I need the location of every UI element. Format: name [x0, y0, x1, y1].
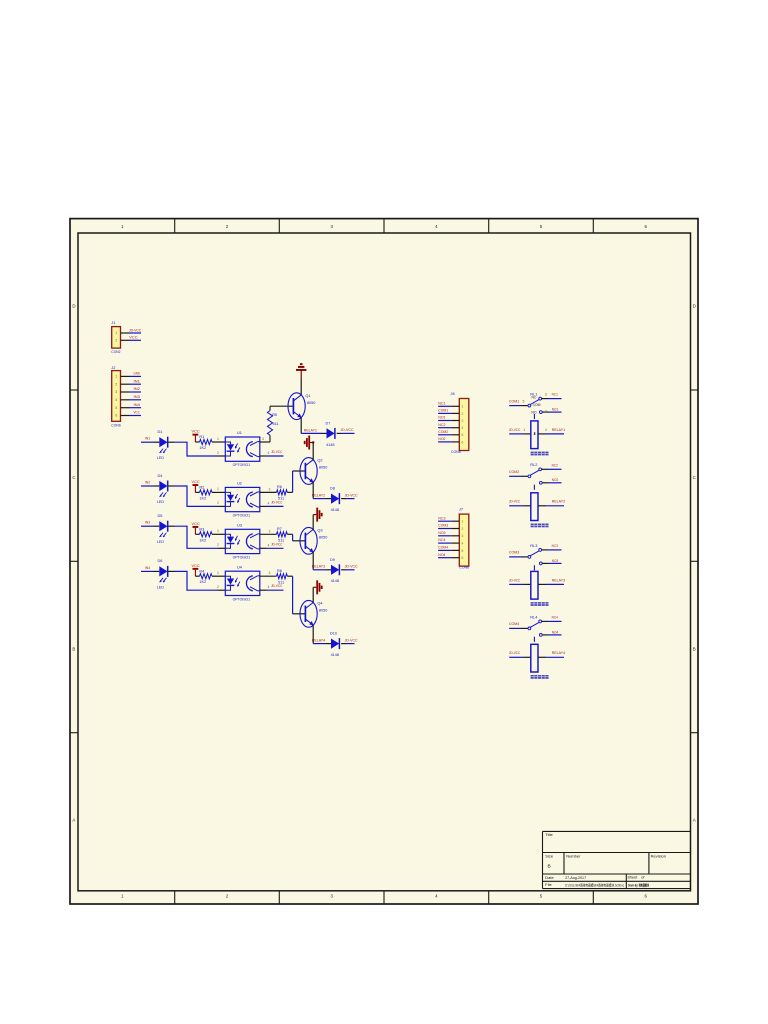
zone numbers bottom [121, 894, 647, 899]
svg-text:VCC: VCC [129, 334, 137, 339]
svg-text:IN4: IN4 [134, 402, 141, 407]
svg-text:4: 4 [461, 426, 463, 430]
resistor R1 1K2 [195, 435, 225, 450]
svg-text:5: 5 [115, 406, 117, 410]
svg-text:1K2: 1K2 [199, 538, 206, 542]
wire IN1 to LED [141, 441, 159, 443]
svg-text:CON2: CON2 [111, 349, 120, 354]
svg-text:3: 3 [115, 390, 117, 394]
svg-text:4: 4 [268, 451, 270, 455]
svg-text:IN2: IN2 [134, 386, 140, 391]
svg-text:1K2: 1K2 [199, 580, 206, 584]
svg-text:LED: LED [157, 539, 164, 544]
svg-text:JD-VCC: JD-VCC [509, 651, 521, 655]
svg-text:RELAY3: RELAY3 [312, 564, 325, 569]
svg-text:GND: GND [134, 371, 141, 376]
svg-text:3: 3 [461, 534, 463, 538]
wire Q1 collector [300, 379, 302, 395]
svg-text:R2: R2 [199, 486, 204, 490]
svg-text:COM: COM [533, 403, 541, 407]
svg-text:IN1: IN1 [134, 378, 140, 383]
wire RELAY2 row [313, 498, 354, 500]
svg-text:COM4: COM4 [509, 622, 519, 626]
svg-text:4148: 4148 [331, 653, 339, 657]
title block texts [545, 832, 666, 887]
svg-text:R5: R5 [272, 413, 277, 417]
wire U4 pin 3 to R8 [260, 575, 277, 577]
svg-text:D6: D6 [158, 558, 163, 563]
optocoupler U4 OPTOISO1 [225, 564, 259, 601]
svg-text:NC3: NC3 [438, 516, 445, 520]
svg-text:VCC: VCC [192, 429, 200, 434]
svg-text:COM4: COM4 [438, 546, 448, 550]
wire LED D1 to optocoupler pin 2 [168, 442, 225, 456]
resistor R6 511 [277, 485, 288, 501]
svg-text:A: A [72, 818, 75, 823]
svg-text:VCC: VCC [192, 521, 200, 526]
svg-text:1: 1 [461, 520, 463, 524]
svg-text:1K2: 1K2 [199, 446, 206, 450]
J7 pin wires [438, 521, 459, 558]
svg-text:COM2: COM2 [438, 430, 448, 434]
wire optocoupler U4 pin 4 to JD-VCC [260, 589, 284, 591]
relay RL3 caption [531, 602, 534, 606]
svg-text:RELAY2: RELAY2 [552, 500, 565, 504]
svg-text:VCC: VCC [192, 563, 200, 568]
wire Q2 emitter to RELAY2 [312, 482, 314, 498]
svg-text:8050: 8050 [307, 401, 315, 405]
svg-text:511: 511 [278, 497, 284, 501]
svg-text:6: 6 [461, 556, 463, 560]
svg-text:RELAY4: RELAY4 [312, 638, 326, 643]
svg-text:Size: Size [545, 853, 554, 858]
svg-text:511: 511 [278, 580, 284, 584]
transistor Q4 8050 [300, 600, 327, 627]
relay RL2 caption [531, 524, 534, 528]
svg-text:Q2: Q2 [317, 458, 322, 463]
wire IN4 to LED [141, 570, 159, 572]
svg-text:Title: Title [545, 832, 553, 837]
relay RL1 caption [531, 452, 534, 456]
svg-text:4148: 4148 [331, 508, 339, 512]
relay RL4 switch [509, 620, 561, 642]
svg-text:J6: J6 [451, 391, 455, 396]
J6 pin wires [438, 406, 459, 442]
svg-text:CON6: CON6 [459, 565, 469, 570]
svg-text:NO3: NO3 [552, 559, 558, 563]
J7 pin numbers [461, 520, 463, 561]
zone numbers top [121, 224, 647, 229]
connector J6 [459, 399, 469, 451]
resistor R2 1K2 [195, 486, 225, 501]
svg-text:J7: J7 [459, 506, 463, 511]
inner border frame [78, 233, 691, 891]
svg-text:JD-VCC: JD-VCC [271, 542, 283, 546]
optocoupler U2 pin numbers [217, 487, 271, 505]
wire LED D4 to optocoupler pin 2 [168, 486, 225, 506]
power ground right of Q3 collector [313, 514, 316, 516]
svg-text:3: 3 [269, 571, 271, 575]
svg-text:3: 3 [545, 393, 547, 397]
wire RELAY3 row [313, 569, 354, 571]
svg-text:D: D [693, 304, 696, 309]
svg-text:D8: D8 [330, 487, 335, 491]
svg-text:OPTOISO1: OPTOISO1 [233, 463, 251, 467]
wire IN2 to LED [141, 485, 159, 487]
wire optocoupler U1 pin 4 to JD-VCC [260, 455, 284, 457]
svg-text:5: 5 [461, 433, 463, 437]
svg-text:4148: 4148 [326, 443, 334, 447]
svg-text:2: 2 [217, 585, 219, 589]
svg-text:JD-VCC: JD-VCC [345, 493, 358, 497]
svg-text:VCC: VCC [134, 410, 141, 415]
svg-text:JD-VCC: JD-VCC [271, 584, 283, 588]
relay RL4 coil [509, 644, 564, 672]
svg-text:J1: J1 [111, 320, 115, 325]
resistor R3 1K2 [195, 527, 225, 542]
svg-text:1K2: 1K2 [199, 496, 206, 500]
svg-text:D:\2013.08\4路继电器模块\4路继电器模块.Sch: D:\2013.08\4路继电器模块\4路继电器模块.SchDoc [565, 882, 624, 887]
svg-text:R4: R4 [199, 569, 204, 573]
svg-text:27-Aug-2017: 27-Aug-2017 [565, 875, 587, 880]
svg-text:U3: U3 [237, 522, 242, 527]
svg-text:8050: 8050 [319, 608, 327, 612]
svg-text:COM1: COM1 [509, 399, 519, 403]
svg-text:NO1: NO1 [552, 408, 558, 412]
svg-text:OPTOISO1: OPTOISO1 [233, 556, 251, 560]
zone letters right [693, 304, 696, 823]
svg-text:LED: LED [157, 584, 164, 589]
svg-text:COM1: COM1 [438, 409, 448, 413]
svg-text:2: 2 [115, 382, 117, 386]
svg-text:IN3: IN3 [145, 520, 150, 525]
svg-text:2: 2 [217, 501, 219, 505]
schematic sheet background [70, 219, 698, 904]
svg-text:NO2: NO2 [552, 478, 558, 482]
svg-text:Date: Date [545, 875, 554, 880]
power ground right of Q4 collector [313, 586, 316, 588]
svg-text:3: 3 [262, 437, 264, 441]
svg-text:2: 2 [461, 412, 463, 416]
J6 net labels [438, 401, 448, 441]
svg-text:4: 4 [115, 398, 117, 402]
optocoupler U4 pin numbers [217, 571, 271, 589]
diode D10 4148 [330, 632, 339, 657]
wire IN3 to LED [141, 525, 159, 527]
svg-text:8050: 8050 [319, 466, 327, 470]
relay RL4 caption [531, 675, 534, 679]
svg-text:B: B [693, 646, 696, 651]
zone row ticks [70, 390, 698, 733]
svg-text:1: 1 [217, 571, 219, 575]
svg-text:5: 5 [461, 549, 463, 553]
wire R6 to Q2 base [287, 471, 305, 492]
svg-text:OPTOISO1: OPTOISO1 [233, 514, 251, 518]
optocoupler U3 OPTOISO1 [225, 522, 259, 559]
diode D7 4148 [326, 421, 335, 446]
svg-text:IN2: IN2 [145, 479, 150, 484]
connector J1 [112, 327, 121, 349]
resistor R5 511 [267, 406, 278, 442]
wire Q2 collector [312, 443, 314, 460]
junction at Q2 collector [312, 441, 314, 443]
optocoupler U1 pin numbers [217, 437, 270, 455]
svg-text:4: 4 [461, 542, 463, 546]
svg-text:Sheet: Sheet [627, 875, 638, 879]
svg-text:NC1: NC1 [552, 393, 558, 397]
J7 net labels [438, 516, 448, 557]
svg-text:RELAY1: RELAY1 [552, 428, 565, 432]
wire U1 pin 3 to R5 [260, 441, 270, 443]
svg-text:R8: R8 [277, 569, 282, 573]
svg-text:NC: NC [532, 395, 537, 399]
svg-text:4: 4 [545, 428, 547, 432]
svg-text:4: 4 [268, 585, 270, 589]
svg-text:D10: D10 [330, 632, 337, 636]
wire Q4 emitter to RELAY4 [312, 625, 314, 644]
svg-text:R3: R3 [199, 527, 204, 531]
LED indicator diode D4 [157, 473, 168, 504]
wire R5 to Q1 base [270, 405, 293, 407]
relay RL3 switch [509, 549, 561, 571]
wire RELAY4 row [313, 643, 354, 645]
diode D8 4148 [330, 487, 339, 512]
diode D9 4148 [330, 558, 339, 583]
svg-text:JD-VCC: JD-VCC [509, 500, 521, 504]
svg-text:LED: LED [157, 455, 164, 460]
title block [543, 831, 691, 888]
wire U2 pin 3 to R6 [260, 491, 277, 493]
svg-text:JD-VCC: JD-VCC [509, 428, 521, 432]
svg-text:2: 2 [545, 410, 547, 414]
svg-text:D5: D5 [158, 513, 163, 518]
connector J2 [112, 371, 121, 422]
svg-text:U1: U1 [237, 430, 242, 435]
resistor R4 1K2 [195, 569, 225, 584]
svg-text:COM2: COM2 [509, 470, 519, 474]
J1 pin numbers [115, 331, 117, 342]
svg-text:3: 3 [269, 529, 271, 533]
J6 pin numbers [461, 405, 463, 445]
svg-text:NO3: NO3 [438, 531, 445, 535]
power ground above Q1 [300, 371, 302, 379]
svg-text:RL2: RL2 [530, 462, 537, 467]
svg-text:2: 2 [115, 338, 117, 342]
wire LED D6 to optocoupler pin 2 [168, 571, 225, 590]
svg-text:NC3: NC3 [552, 544, 558, 548]
svg-text:VCC: VCC [192, 479, 200, 484]
svg-text:Q4: Q4 [317, 601, 323, 606]
svg-text:IN1: IN1 [145, 436, 150, 441]
resistor R8 511 [277, 569, 288, 585]
svg-text:2: 2 [217, 543, 219, 547]
svg-text:NC4: NC4 [438, 538, 445, 542]
svg-text:J2: J2 [111, 365, 115, 370]
wire Q3 emitter to RELAY3 [312, 552, 314, 570]
svg-text:D9: D9 [330, 558, 335, 562]
zone letters left [72, 304, 75, 823]
svg-text:4: 4 [268, 543, 270, 547]
svg-text:RELAY4: RELAY4 [552, 651, 565, 655]
svg-text:U2: U2 [237, 481, 242, 486]
optocoupler U1 OPTOISO1 [225, 430, 259, 467]
power VCC channel 2 [193, 484, 199, 486]
svg-text:LED: LED [157, 499, 164, 504]
svg-text:Revision: Revision [651, 853, 666, 858]
svg-text:D: D [72, 304, 75, 309]
svg-text:JD-VCC: JD-VCC [509, 578, 521, 582]
svg-text:Number: Number [566, 853, 581, 858]
svg-text:5: 5 [523, 399, 525, 403]
wire R8 to Q4 base [287, 576, 305, 614]
svg-text:511: 511 [278, 539, 284, 543]
connector J7 [459, 514, 469, 566]
svg-text:IN3: IN3 [134, 394, 140, 399]
svg-text:JD-VCC: JD-VCC [341, 428, 354, 432]
svg-text:1: 1 [115, 331, 117, 335]
svg-text:IN4: IN4 [145, 565, 151, 570]
svg-text:NO: NO [531, 410, 536, 414]
wire U3 pin 3 to R7 [260, 533, 277, 535]
svg-text:File: File [545, 882, 552, 887]
svg-text:RELAY1: RELAY1 [304, 427, 317, 432]
power VCC channel 1 [193, 434, 199, 436]
svg-text:NC2: NC2 [552, 463, 558, 467]
wire LED D5 to optocoupler pin 2 [168, 526, 225, 548]
svg-text:D7: D7 [326, 421, 331, 425]
svg-text:COM3: COM3 [438, 524, 448, 528]
svg-text:R6: R6 [277, 485, 282, 489]
wire optocoupler U3 pin 4 to JD-VCC [260, 547, 284, 549]
svg-text:NO1: NO1 [438, 416, 445, 420]
svg-text:JD-VCC: JD-VCC [271, 500, 283, 504]
svg-text:3: 3 [461, 419, 463, 423]
svg-text:CON6: CON6 [111, 422, 120, 427]
svg-text:RL4: RL4 [530, 614, 538, 619]
svg-text:OPTOISO1: OPTOISO1 [233, 597, 251, 601]
svg-text:B: B [72, 646, 75, 651]
optocoupler U2 OPTOISO1 [225, 481, 259, 518]
wire R7 to Q3 base [287, 534, 305, 541]
svg-text:D1: D1 [158, 429, 163, 434]
wire RELAY1 row [301, 432, 354, 434]
svg-text:4: 4 [268, 501, 270, 505]
svg-text:RELAY2: RELAY2 [312, 493, 325, 498]
svg-text:1: 1 [217, 529, 219, 533]
power VCC channel 4 [193, 568, 199, 570]
svg-text:Q3: Q3 [317, 528, 322, 533]
power VCC channel 3 [193, 526, 199, 528]
svg-text:1: 1 [461, 405, 463, 409]
J2 pin wires [121, 376, 142, 415]
svg-text:4148: 4148 [331, 579, 339, 583]
J1 pin 2 wire [121, 339, 142, 341]
svg-text:C: C [693, 475, 696, 480]
svg-text:511: 511 [273, 422, 279, 426]
svg-text:JD-VCC: JD-VCC [129, 327, 141, 332]
svg-text:6: 6 [461, 440, 463, 444]
svg-text:Drawn By: 继电器模块: Drawn By: 继电器模块 [628, 882, 649, 887]
svg-text:1: 1 [115, 375, 117, 379]
svg-text:1: 1 [523, 428, 525, 432]
svg-text:D4: D4 [158, 473, 164, 478]
relay RL1 coil [509, 421, 564, 449]
transistor Q2 8050 [300, 458, 327, 485]
wire Q1 emitter to RELAY1 [300, 418, 302, 434]
zone column ticks [175, 219, 594, 904]
wire Q4 collector [312, 587, 314, 602]
svg-text:JD-VCC: JD-VCC [345, 638, 358, 642]
svg-text:B: B [548, 864, 551, 870]
svg-text:NO2: NO2 [438, 437, 445, 441]
svg-text:2: 2 [461, 527, 463, 531]
svg-text:U4: U4 [237, 564, 243, 569]
transistor Q3 8050 [300, 527, 327, 554]
J1 pin 1 wire [121, 332, 142, 334]
svg-text:C: C [72, 475, 75, 480]
optocoupler U3 pin numbers [217, 529, 271, 547]
svg-text:NO4: NO4 [438, 553, 445, 557]
relay RL3 coil [509, 571, 564, 599]
svg-text:R1: R1 [199, 435, 204, 439]
wire optocoupler U2 pin 4 to JD-VCC [260, 505, 284, 507]
svg-text:COM3: COM3 [509, 551, 519, 555]
svg-text:JD-VCC: JD-VCC [345, 565, 358, 569]
svg-text:NC1: NC1 [438, 401, 445, 405]
power ground left of Q2 collector [310, 442, 313, 444]
svg-text:1: 1 [217, 437, 219, 441]
svg-text:JD-VCC: JD-VCC [271, 450, 283, 454]
svg-text:RL3: RL3 [530, 543, 537, 548]
relay RL1 pin names and numbers [523, 393, 547, 432]
svg-text:1: 1 [217, 487, 219, 491]
svg-text:Q1: Q1 [305, 393, 310, 398]
svg-text:3: 3 [269, 487, 271, 491]
svg-text:RELAY3: RELAY3 [552, 578, 565, 582]
wire Q3 collector [312, 515, 314, 530]
relay RL2 coil [509, 493, 564, 521]
svg-text:2: 2 [217, 451, 219, 455]
transistor Q1 8050 [288, 393, 315, 420]
resistor R7 511 [277, 527, 288, 543]
svg-text:NO4: NO4 [552, 630, 558, 634]
relay RL1 switch [509, 397, 561, 419]
relay RL2 switch [509, 468, 561, 490]
svg-text:NC4: NC4 [552, 615, 558, 619]
svg-text:NC2: NC2 [438, 423, 445, 427]
J2 net labels [134, 371, 141, 415]
LED indicator diode D1 [157, 429, 168, 460]
LED indicator diode D6 [157, 558, 168, 589]
svg-text:CON6: CON6 [451, 449, 461, 454]
LED indicator diode D5 [157, 513, 168, 544]
J2 pin numbers [115, 375, 117, 418]
svg-text:6: 6 [115, 414, 117, 418]
svg-text:8050: 8050 [319, 535, 327, 539]
svg-text:R7: R7 [277, 527, 282, 531]
svg-text:A: A [693, 818, 696, 823]
